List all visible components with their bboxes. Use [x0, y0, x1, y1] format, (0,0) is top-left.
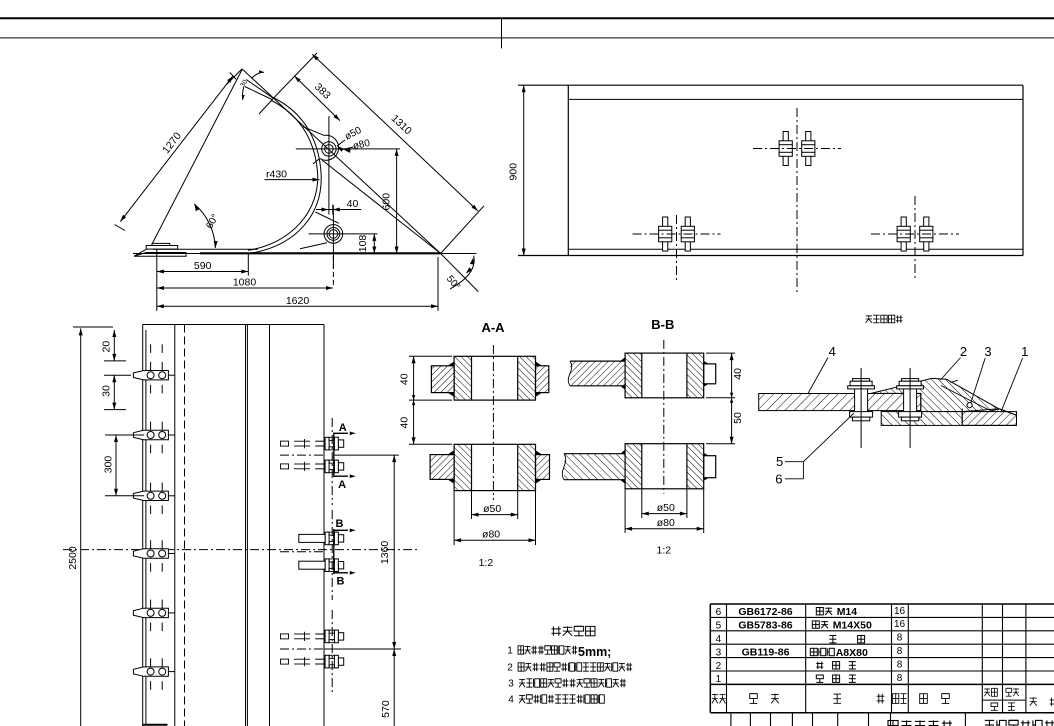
svg-text:3: 3 — [984, 344, 991, 359]
svg-text:8: 8 — [897, 659, 903, 670]
svg-text:1360: 1360 — [379, 541, 391, 565]
svg-text:M14X50: M14X50 — [833, 619, 872, 631]
svg-text:B-B: B-B — [651, 317, 674, 332]
svg-text:ø50: ø50 — [657, 502, 675, 514]
svg-text:108: 108 — [357, 235, 369, 253]
svg-text:5: 5 — [776, 454, 783, 469]
svg-text:2: 2 — [960, 344, 967, 359]
svg-text:16: 16 — [894, 619, 906, 630]
svg-text:4: 4 — [508, 695, 514, 706]
svg-text:8: 8 — [897, 646, 903, 657]
svg-text:900: 900 — [507, 163, 519, 181]
svg-text:GB6172-86: GB6172-86 — [738, 606, 792, 618]
svg-text:A-A: A-A — [481, 320, 505, 335]
svg-text:5mm;: 5mm; — [578, 645, 611, 659]
svg-text:B: B — [336, 518, 344, 530]
svg-text:2: 2 — [716, 661, 722, 672]
svg-text:300: 300 — [103, 456, 115, 474]
svg-text:1620: 1620 — [286, 295, 310, 307]
svg-text:6: 6 — [716, 607, 722, 618]
svg-text:1: 1 — [1021, 344, 1028, 359]
svg-text:6: 6 — [775, 472, 782, 487]
svg-text:40: 40 — [347, 198, 359, 210]
svg-text:A: A — [338, 479, 346, 491]
svg-text:ø80: ø80 — [482, 529, 500, 541]
svg-text:20: 20 — [101, 341, 113, 353]
svg-text:ø50: ø50 — [483, 503, 501, 515]
svg-text:16: 16 — [894, 606, 906, 617]
svg-text:1: 1 — [507, 646, 513, 657]
svg-text:40: 40 — [732, 368, 744, 380]
svg-text:GB119-86: GB119-86 — [742, 646, 790, 658]
svg-text:5: 5 — [716, 621, 722, 632]
svg-text:2: 2 — [507, 663, 513, 674]
svg-text:ø80: ø80 — [657, 517, 675, 529]
svg-text:40: 40 — [398, 417, 410, 429]
svg-text:1: 1 — [716, 674, 722, 685]
svg-text:4: 4 — [829, 344, 836, 359]
svg-text:600: 600 — [381, 193, 393, 211]
svg-text:50: 50 — [732, 412, 744, 424]
svg-text:570: 570 — [380, 700, 392, 718]
svg-text:1:2: 1:2 — [656, 544, 671, 556]
svg-text:4: 4 — [716, 634, 722, 645]
svg-text:B: B — [337, 576, 345, 588]
svg-text:3: 3 — [508, 679, 514, 690]
svg-text:40: 40 — [398, 373, 410, 385]
svg-text:M14: M14 — [837, 606, 858, 618]
svg-text:A8X80: A8X80 — [836, 647, 868, 659]
svg-text:A: A — [339, 422, 347, 434]
svg-text:590: 590 — [194, 260, 212, 272]
svg-text:3: 3 — [716, 647, 722, 658]
svg-text:8: 8 — [897, 633, 903, 644]
svg-text:GB5783-86: GB5783-86 — [738, 620, 792, 632]
svg-text:8: 8 — [897, 673, 903, 684]
svg-text:1:2: 1:2 — [479, 557, 494, 569]
svg-text:1080: 1080 — [233, 277, 257, 289]
svg-text:30: 30 — [101, 385, 113, 397]
svg-text:r430: r430 — [266, 169, 287, 181]
svg-text:2500: 2500 — [67, 546, 79, 570]
